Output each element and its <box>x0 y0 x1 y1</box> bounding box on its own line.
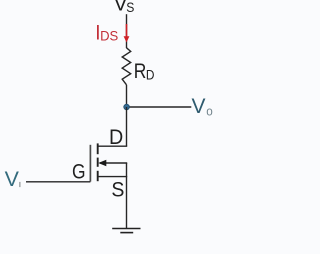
transistor M1 : drain connection <box>98 145 128 147</box>
label IDS <box>95 22 118 45</box>
wire resistor bottom to node <box>126 85 128 107</box>
transistor M1 : gate plate <box>89 145 91 182</box>
svg-text:G: G <box>72 161 86 184</box>
wire source vertical down to ground <box>126 163 128 229</box>
current arrow IDS <box>124 24 130 43</box>
label Vi <box>5 168 21 191</box>
svg-text:V: V <box>192 95 206 118</box>
svg-text:S: S <box>111 179 124 202</box>
node (drain output node, blue dot) <box>124 104 130 110</box>
wire VS to resistor top <box>126 14 128 48</box>
transistor M1 : body line with arrow <box>100 162 127 164</box>
svg-text:S: S <box>126 0 134 15</box>
label RD <box>134 60 155 83</box>
label VS (supply) <box>114 0 135 16</box>
ground <box>112 229 140 233</box>
resistor RD <box>122 48 131 85</box>
label Vo <box>192 95 213 119</box>
wire drain vertical (node down to transistor drain) <box>126 107 128 146</box>
wire node to Vo <box>127 106 192 108</box>
svg-text:DS: DS <box>100 28 118 43</box>
svg-text:o: o <box>206 104 213 119</box>
wire gate (Vi to gate plate) <box>26 181 90 183</box>
transistor M1 : source connection <box>98 176 128 178</box>
svg-text:V: V <box>5 168 20 191</box>
transistor M1 : channel segments <box>97 143 99 181</box>
svg-text:D: D <box>146 66 155 82</box>
svg-text:R: R <box>134 60 147 83</box>
